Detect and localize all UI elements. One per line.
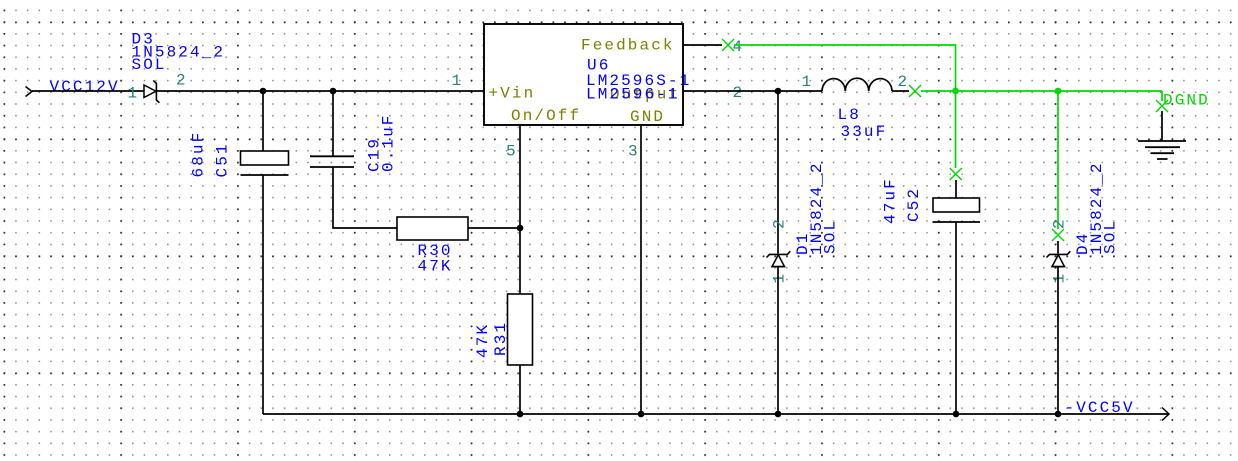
net-tie X at DGND: [1156, 100, 1168, 112]
svg-text:47K: 47K: [418, 258, 453, 276]
capacitor C19: [310, 156, 354, 167]
svg-text:On/Off: On/Off: [511, 107, 581, 125]
wire VCC12V to D3 anode: [32, 90, 144, 92]
svg-text:L8: L8: [838, 106, 861, 124]
junction node D4 branch (green): [1055, 88, 1062, 95]
svg-text:R31: R31: [492, 321, 510, 356]
svg-text:C52: C52: [905, 187, 923, 222]
svg-text:3: 3: [628, 143, 640, 161]
wire D3 cathode to U6 +Vin: [157, 90, 484, 92]
junction node at C51 branch: [260, 88, 267, 95]
svg-text:SOL: SOL: [132, 56, 167, 74]
svg-text:1: 1: [771, 272, 789, 284]
svg-text:47K: 47K: [474, 323, 492, 358]
port VCC5V output arrow: [1162, 408, 1169, 421]
wire C51 bottom to ground rail: [262, 175, 264, 414]
svg-text:33uF: 33uF: [841, 123, 888, 141]
svg-text:1: 1: [128, 85, 140, 103]
resistor R31: [508, 294, 533, 365]
no-connect X at feedback pin: [722, 39, 734, 51]
wire node down to D1 cathode: [777, 91, 779, 254]
wire feedback net (green): [734, 45, 956, 91]
svg-text:1: 1: [452, 72, 464, 90]
svg-text:2: 2: [176, 72, 188, 90]
wire U6 On/Off pin 5 down: [519, 125, 521, 228]
diode D1 (Schottky, cathode up): [767, 251, 791, 257]
wire D4 anode to ground rail: [1057, 267, 1059, 414]
wire U6 GND pin 3 to ground rail: [640, 125, 642, 414]
port VCC12V input arrow: [26, 87, 33, 97]
wire R30 to On/Off node: [468, 227, 520, 229]
wire VCC5V output net to DGND corner (green): [921, 90, 1162, 92]
inductor L8: [822, 78, 892, 91]
wire node to C51 top: [262, 91, 264, 152]
wire down to D4 (green): [1057, 91, 1059, 229]
resistor R30: [397, 217, 468, 240]
svg-text:LM2596-1: LM2596-1: [586, 86, 680, 104]
diode D4 (Schottky, cathode up): [1047, 251, 1071, 257]
svg-text:-VCC5V: -VCC5V: [1065, 399, 1135, 417]
net-tie X above D4: [1052, 229, 1064, 241]
diode D3 (Schottky): [144, 85, 156, 98]
wire L8 pin 2 stub: [892, 90, 909, 92]
capacitor C51 (polarized): [241, 151, 289, 165]
junction node at C19 branch: [330, 88, 337, 95]
junction node at D1 branch: [775, 88, 782, 95]
wire node to C19 top: [332, 91, 334, 156]
wire C19 bottom to R30: [333, 167, 397, 228]
junction node feedback/output (green): [952, 88, 959, 95]
svg-text:+Vin: +Vin: [489, 84, 536, 102]
wire ground rail (VCC5V net bottom): [263, 413, 1169, 415]
op-amp regulator U6 LM2596S-1 body: [484, 24, 683, 125]
wire U6 Output pin 2 to L8: [683, 90, 822, 92]
junction node rail/D4: [1055, 411, 1062, 418]
svg-text:Feedback: Feedback: [581, 37, 675, 55]
svg-text:1: 1: [1051, 272, 1069, 284]
wire node to R31 top: [519, 228, 521, 294]
net-tie X at L8 output: [909, 85, 921, 97]
wire D1 anode to ground rail: [777, 267, 779, 414]
svg-text:SOL: SOL: [1102, 219, 1120, 254]
svg-text:68uF: 68uF: [190, 131, 208, 178]
capacitor C52 (polarized): [933, 198, 980, 212]
svg-text:0.1uF: 0.1uF: [380, 113, 398, 172]
wire down to C52 (green): [955, 91, 957, 168]
svg-text:4: 4: [733, 38, 745, 56]
wire X to D4 cathode: [1057, 241, 1059, 254]
junction node R30/R31/pin5: [517, 225, 524, 232]
wire X to ground symbol: [1161, 111, 1163, 141]
junction node rail/R31: [517, 411, 524, 418]
junction node rail/D1: [775, 411, 782, 418]
svg-text:2: 2: [1051, 217, 1069, 229]
wire C52 bottom to ground rail: [955, 222, 957, 414]
junction node rail/C52: [953, 411, 960, 418]
wire R31 bottom to ground rail: [519, 365, 521, 414]
svg-text:SOL: SOL: [822, 219, 840, 254]
ground symbol DGND: [1138, 141, 1186, 159]
svg-text:2: 2: [771, 217, 789, 229]
wire DGND drop (green): [1161, 91, 1163, 101]
svg-text:GND: GND: [630, 108, 665, 126]
svg-text:47uF: 47uF: [882, 177, 900, 224]
svg-text:5: 5: [506, 143, 518, 161]
svg-text:2: 2: [898, 73, 910, 91]
wire U6 Feedback pin 4 stub: [683, 44, 722, 46]
junction node rail/U6 GND: [638, 411, 645, 418]
svg-text:DGND: DGND: [1163, 92, 1210, 110]
svg-text:C51: C51: [214, 142, 232, 177]
wire X to C52 top: [955, 180, 957, 199]
svg-text:VCC12V: VCC12V: [50, 78, 120, 96]
svg-text:1: 1: [802, 73, 814, 91]
net-tie X above C52: [950, 168, 962, 180]
svg-text:2: 2: [733, 84, 745, 102]
